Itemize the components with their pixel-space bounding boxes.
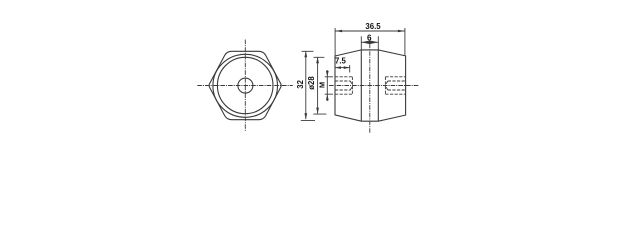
dim 36.5 arrows <box>335 30 405 33</box>
svg-text:32: 32 <box>296 79 305 88</box>
dim 36.5 extension lines <box>335 28 405 56</box>
svg-text:36.5: 36.5 <box>365 22 381 31</box>
left hidden thread hole outer <box>335 77 352 94</box>
dim 7.5 line <box>335 67 350 69</box>
circle dia 28 <box>217 57 273 113</box>
dim 32 line <box>305 51 307 119</box>
dim 36.5 line <box>335 30 405 32</box>
svg-text:ø28: ø28 <box>307 76 316 90</box>
svg-text:7.5: 7.5 <box>335 56 347 65</box>
dim 7.5 arrows <box>335 66 350 69</box>
dim 6 arrows <box>361 41 378 45</box>
front view horizontal centerline <box>197 85 292 87</box>
side view inner vertical left <box>360 50 362 121</box>
hexagon outline <box>209 51 281 119</box>
svg-text:M: M <box>318 82 327 88</box>
dim dia28 arrows <box>316 57 319 113</box>
dim M line <box>326 70 328 101</box>
right hidden drill hole inner <box>385 81 405 90</box>
dim 32 arrows <box>304 51 307 119</box>
dim dia28 line <box>317 57 319 113</box>
right hidden thread hole outer <box>385 77 405 94</box>
dim dia28 extension ticks <box>313 57 326 114</box>
side view outline <box>335 50 406 121</box>
front view vertical centerline <box>244 40 246 132</box>
side view horizontal centerline <box>329 85 419 87</box>
svg-text:6: 6 <box>367 34 372 43</box>
side view vertical centerline <box>369 44 371 134</box>
dim 6 line <box>361 41 378 43</box>
left hidden drill hole inner <box>335 81 353 90</box>
dim 7.5 extension line <box>349 65 351 73</box>
dim 6 extension lines <box>361 36 378 49</box>
dim 32 extension ticks <box>301 51 315 120</box>
chamfer circle <box>213 54 278 117</box>
thread hole circle <box>238 78 253 93</box>
dim M extension ticks <box>325 77 333 94</box>
side view inner vertical right <box>377 50 379 121</box>
dim M arrows <box>326 71 329 100</box>
